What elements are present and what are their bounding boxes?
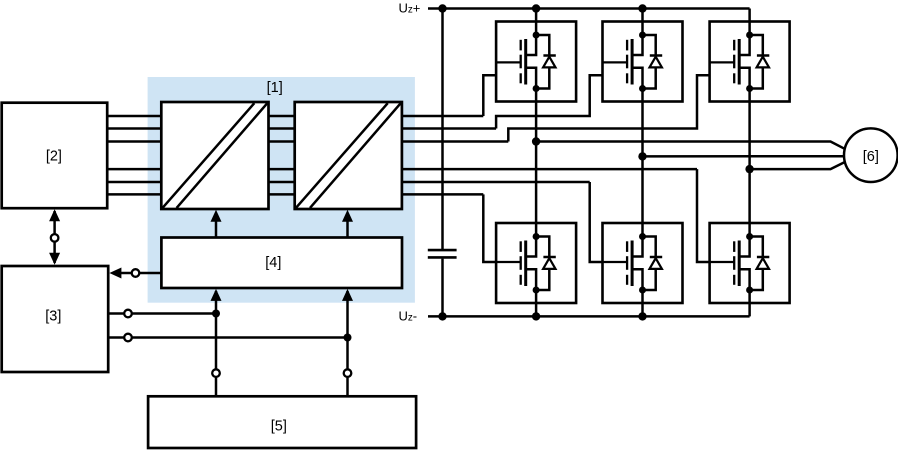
- capacitor C1 leg top: [441, 9, 444, 250]
- wire phase 1 lower column: [535, 303, 538, 316]
- isolation circle on [2]-[3] link: [51, 234, 59, 242]
- isolation circle on feedback 2: [124, 334, 132, 342]
- motor [6]: [844, 128, 898, 182]
- arrowhead into driver A: [211, 210, 222, 222]
- junction dot Uz+ phase 1: [532, 4, 540, 12]
- svg-text:[1]: [1]: [267, 80, 283, 96]
- wire gate top phase W (staircase to IGBT Q5): [508, 75, 709, 141]
- arrowhead into driver B: [342, 210, 353, 222]
- wire PWM3 driver A to driver B: [269, 140, 295, 143]
- isolation circle on [4]-[3] wire: [132, 269, 140, 277]
- freewheeling diode D6: [750, 237, 770, 291]
- wire phase 2 lower column: [641, 303, 644, 316]
- junction dot feedback 2: [344, 334, 352, 342]
- arrowhead into [4] bottom left: [211, 289, 222, 301]
- junction dot Uz- phase 2: [638, 312, 646, 320]
- capacitor C1 leg bottom: [441, 259, 444, 317]
- wire phase 2 upper column: [641, 9, 644, 22]
- isolation circle on feedback 1: [124, 310, 132, 318]
- arrowhead up into [2]: [49, 209, 60, 221]
- isolation circle on [5] left vertical: [212, 369, 220, 377]
- bus Uz+: [428, 7, 750, 10]
- IGBT module Q4 (bottom, phase V): [603, 223, 683, 303]
- wire PWM2 [2] to driver A: [107, 127, 161, 130]
- wire PWM2 driver B to inverter: [402, 127, 496, 130]
- wire [3] feedback 2: [108, 336, 347, 339]
- isolation circle on [5] right vertical: [344, 369, 352, 377]
- wire motor phase W: [750, 162, 845, 169]
- wire PWM5 [2] to driver A: [107, 181, 161, 184]
- arrowhead down into [3]: [49, 253, 60, 265]
- block [2]: [2, 103, 108, 209]
- wire [5] to [4] left vertical: [215, 291, 218, 396]
- junction dot Uz+ phase 2: [638, 4, 646, 12]
- wire PWM4 driver A to driver B: [269, 168, 295, 171]
- wire gate top phase V (staircase to IGBT Q3): [496, 75, 602, 128]
- wire PWM1 driver A to driver B: [269, 115, 295, 118]
- wire [4] to driver A: [215, 218, 218, 238]
- wire gate bottom phase W (staircase to IGBT Q6): [697, 169, 710, 262]
- junction dot feedback 1: [212, 310, 220, 318]
- IGBT module Q3 (top, phase V): [603, 22, 683, 102]
- wire gate bottom phase V (staircase to IGBT Q4): [590, 182, 603, 262]
- wire PWM5 driver B to inverter: [402, 181, 590, 184]
- wire phase 1 upper column: [535, 9, 538, 22]
- junction dot phase V output: [638, 152, 646, 160]
- svg-text:[3]: [3]: [45, 309, 61, 325]
- wire phase 3 lower column: [748, 303, 751, 316]
- wire PWM4 driver B to inverter: [402, 168, 697, 171]
- highlight box [1] gate driver group: [148, 77, 415, 303]
- wire PWM6 [2] to driver A: [107, 193, 161, 196]
- freewheeling diode D2: [536, 237, 556, 291]
- wire PWM1 [2] to driver A: [107, 115, 161, 118]
- bus Uz-: [428, 315, 750, 318]
- wire [4] to driver B: [346, 218, 349, 238]
- wire PWM3 [2] to driver A: [107, 140, 161, 143]
- freewheeling diode D5: [750, 35, 770, 89]
- wire phase 2 mid column: [641, 102, 644, 224]
- svg-text:[6]: [6]: [863, 149, 879, 165]
- gate driver module B (isolated driver, block inside [1]): [295, 102, 402, 209]
- arrowhead into [3]: [109, 268, 121, 279]
- svg-text:[4]: [4]: [265, 255, 281, 271]
- wire phase 1 mid column: [535, 102, 538, 224]
- IGBT module Q2 (bottom, phase U): [496, 223, 576, 303]
- wire phase 3 mid column: [748, 102, 751, 224]
- IGBT module Q5 (top, phase W): [710, 22, 790, 102]
- wire [3] feedback 1: [108, 312, 216, 315]
- block [5]: [148, 396, 416, 448]
- junction dot Uz- capacitor: [438, 312, 446, 320]
- svg-text:Uz+: Uz+: [399, 0, 421, 15]
- block [4] control logic: [161, 238, 402, 289]
- freewheeling diode D3: [643, 35, 663, 89]
- capacitor C1 plates: [428, 250, 457, 257]
- freewheeling diode D4: [643, 237, 663, 291]
- wire PWM6 driver B to inverter: [402, 193, 483, 196]
- wire PWM4 [2] to driver A: [107, 168, 161, 171]
- junction dot phase U output: [532, 137, 540, 145]
- wire PWM3 driver B to inverter: [402, 140, 508, 143]
- wire gate top phase U (staircase to IGBT Q1): [483, 75, 496, 116]
- wire link [2] to [3] with isolation: [53, 211, 56, 263]
- junction dot phase W output: [745, 165, 753, 173]
- wire [5] to [4] right vertical: [346, 291, 349, 396]
- svg-text:[2]: [2]: [46, 148, 62, 164]
- wire phase 3 upper column: [748, 9, 751, 22]
- junction dot Uz- phase 1: [532, 312, 540, 320]
- wire motor phase V: [643, 155, 846, 158]
- svg-text:[5]: [5]: [271, 418, 287, 434]
- wire PWM1 driver B to inverter: [402, 115, 483, 118]
- junction dot Uz+ capacitor: [438, 4, 446, 12]
- wire PWM5 driver A to driver B: [269, 181, 295, 184]
- wire PWM6 driver A to driver B: [269, 193, 295, 196]
- arrowhead into [4] bottom right: [342, 289, 353, 301]
- wire gate bottom phase U (staircase to IGBT Q2): [483, 194, 496, 262]
- wire PWM2 driver A to driver B: [269, 127, 295, 130]
- IGBT module Q1 (top, phase U): [496, 22, 576, 102]
- freewheeling diode D1: [536, 35, 556, 89]
- wire [4] to [3]: [121, 272, 161, 275]
- svg-text:Uz-: Uz-: [399, 308, 418, 323]
- gate driver module A (isolated driver, block inside [1]): [161, 102, 268, 209]
- wire motor phase U: [536, 142, 844, 149]
- IGBT module Q6 (bottom, phase W): [710, 223, 790, 303]
- block [3]: [2, 266, 109, 372]
